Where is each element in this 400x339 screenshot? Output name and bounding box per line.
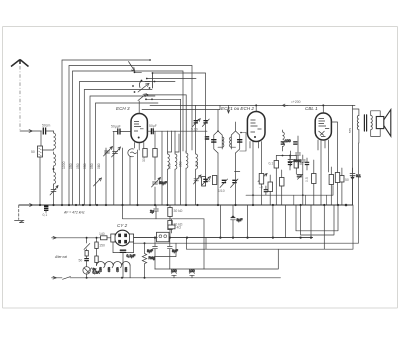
variable capacitor tuning 1: [104, 147, 113, 157]
wire main bus: [19, 204, 353, 207]
diagonal tone arrow: [297, 174, 302, 179]
capacitor trimmer IF c: [218, 179, 228, 193]
wire tube1 pins: [114, 132, 144, 206]
resistor below tube2 b: [268, 175, 273, 205]
svg-text:~0: ~0: [259, 186, 263, 190]
svg-text:0,1: 0,1: [43, 213, 48, 217]
speaker LS: [371, 110, 391, 137]
resistor mains a: [85, 251, 88, 259]
svg-text:0,1μF: 0,1μF: [127, 254, 136, 258]
coil L1 antenna: [54, 131, 56, 150]
wire plate supply line: [150, 104, 355, 106]
wire band loop 1: [62, 60, 149, 205]
svg-text:50cm: 50cm: [42, 123, 50, 127]
resistor interstage a: [269, 156, 279, 206]
svg-text:030: 030: [83, 163, 87, 169]
IF transformer T2 tank: [230, 122, 246, 205]
resistor stack below bus a: [168, 205, 183, 221]
wire B+ line: [133, 237, 313, 239]
svg-text:50μF: 50μF: [149, 124, 157, 128]
wire v205 down: [205, 131, 207, 179]
wire band loop 7: [96, 103, 159, 205]
ground: [15, 205, 25, 223]
potentiometer volume arrow: [258, 173, 267, 181]
switch HT: [84, 237, 90, 251]
wire band loop 3: [73, 71, 184, 205]
label coil values rotated: [62, 161, 199, 169]
resistor below tube2 a: [259, 174, 264, 206]
trimmer capacitor: [50, 185, 58, 205]
wire tap: [40, 132, 54, 151]
svg-text:50μμF: 50μμF: [111, 125, 121, 129]
capacitor mains filter a: [171, 269, 177, 278]
rectifier tube V4 CY2: [111, 230, 134, 246]
switch mains: [52, 277, 281, 280]
svg-text:ECH 3: ECH 3: [116, 106, 130, 111]
variable capacitor tuning 2: [112, 147, 121, 157]
wire band loop 6: [90, 96, 155, 205]
wire band loop 5: [84, 90, 152, 206]
resistor far e: [340, 168, 349, 205]
capacitor C ant 50cm: [42, 123, 54, 134]
svg-text:AF = 472 kHz: AF = 472 kHz: [63, 211, 85, 215]
svg-text:1000: 1000: [62, 161, 66, 169]
svg-text:5.10: 5.10: [191, 128, 198, 132]
wire band loop 4: [80, 82, 151, 206]
svg-text:50: 50: [31, 150, 35, 154]
capacitor coupling a: [288, 151, 301, 166]
svg-text:050: 050: [90, 163, 94, 169]
electrolytic capacitor 8uF a: [147, 238, 157, 269]
junction blob: [345, 204, 348, 207]
svg-text:2μ: 2μ: [150, 210, 154, 214]
resistor interstage c: [294, 156, 303, 175]
svg-text:575: 575: [348, 128, 352, 133]
resistor stack below bus b: [168, 221, 183, 238]
svg-text:140: 140: [99, 232, 105, 236]
capacitor coupling c: [300, 155, 305, 205]
coil osc 4: [196, 105, 198, 205]
resistor R ant: [31, 146, 43, 157]
tube V3 CBL1: [315, 104, 331, 140]
wire AVC arrow: [227, 105, 229, 113]
svg-text:080: 080: [97, 163, 101, 169]
wire switch to IF: [106, 73, 206, 205]
resistor osc pad: [202, 177, 211, 187]
output transformer T3: [357, 115, 372, 143]
svg-text:C50: C50: [107, 267, 111, 272]
svg-text:100: 100: [189, 269, 195, 273]
capacitor bias mid: [259, 186, 268, 196]
svg-text:000: 000: [167, 163, 171, 169]
wire antenna lead: [20, 130, 42, 133]
svg-text:50μF: 50μF: [159, 181, 167, 185]
svg-text:30 kΩ: 30 kΩ: [174, 209, 183, 213]
svg-text:CBL 1: CBL 1: [305, 106, 318, 111]
svg-text:CY 2: CY 2: [117, 223, 128, 228]
IF transformer T1 tank: [212, 110, 224, 205]
svg-text:≈+200: ≈+200: [291, 100, 301, 104]
capacitor 50pF right: [147, 124, 207, 134]
svg-text:5000: 5000: [294, 159, 302, 163]
capacitor grid 50pF left: [111, 125, 131, 135]
heater chain resistors: [97, 262, 131, 278]
capacitor below bus left: [43, 206, 49, 217]
resistor dropper 4ohm: [168, 219, 181, 233]
capacitor 2uF below bus: [150, 205, 158, 219]
coil L2: [53, 152, 56, 170]
wire heater rail mid: [246, 186, 333, 206]
trimmer capacitor osc 2: [194, 175, 202, 184]
svg-text:0,1: 0,1: [269, 162, 274, 166]
wire verticals to B+: [220, 205, 311, 238]
capacitor trimmer IF a: [202, 177, 211, 186]
electrolytic capacitor 8uF b: [167, 238, 178, 269]
svg-text:ECF1 ou ECH 2: ECF1 ou ECH 2: [221, 106, 254, 111]
capacitor padding C~: [128, 149, 137, 157]
svg-text:8μF: 8μF: [172, 249, 178, 253]
wire vertical v162: [161, 131, 163, 205]
trimmer capacitor osc: [152, 178, 167, 206]
resistor mains c: [95, 256, 98, 266]
resistor below tube2 c: [280, 170, 285, 205]
svg-text:300: 300: [142, 156, 146, 162]
svg-text:0.5: 0.5: [305, 177, 309, 182]
svg-text:050: 050: [76, 163, 80, 169]
svg-text:0,3A: 0,3A: [93, 271, 101, 275]
svg-text:C50: C50: [124, 267, 128, 272]
capacitor below rectifier: [120, 250, 135, 278]
lamp dial: [83, 267, 100, 278]
wire heater loop CY2: [113, 242, 134, 253]
variable capacitor padder b: [202, 119, 209, 127]
potentiometer arrow: [94, 178, 102, 186]
variable capacitor padder a: [191, 119, 200, 132]
tube V2: [247, 104, 265, 141]
wire switch to osc b: [146, 99, 181, 205]
band switch S1: [129, 59, 197, 100]
svg-text:8μF: 8μF: [147, 249, 153, 253]
wire resistor to bus: [39, 157, 41, 205]
capacitor interstage b: [288, 156, 292, 171]
capacitor right d: [350, 168, 361, 205]
svg-text:1/10: 1/10: [218, 189, 225, 193]
capacitor coupling b: [296, 136, 301, 168]
coil osc 3: [186, 151, 188, 205]
resistor box mid 1: [142, 149, 147, 163]
wire interstage rail: [276, 155, 296, 157]
coil osc 1: [168, 131, 172, 205]
wire heater line: [123, 205, 205, 269]
resistor IF b: [212, 176, 216, 185]
capacitor mains a: [79, 259, 89, 267]
svg-text:100: 100: [285, 139, 291, 143]
capacitor trimmer IF d: [231, 172, 240, 188]
capacitor grid coupling IF: [205, 131, 209, 142]
label +200: [283, 100, 301, 107]
electrolytic capacitor block 8uF: [155, 232, 169, 242]
capacitor mains filter b: [189, 269, 195, 278]
svg-text:050: 050: [69, 163, 73, 169]
capacitor interstage d: [305, 158, 309, 170]
wire band loop 2: [69, 66, 192, 206]
wire tube2 pins: [250, 142, 262, 206]
wire speaker feed: [353, 105, 359, 205]
tube V1 ECH 3: [131, 101, 147, 143]
svg-text:000: 000: [195, 161, 199, 167]
coil osc 2: [175, 131, 179, 205]
svg-text:4Ω: 4Ω: [177, 226, 182, 230]
svg-text:8μF: 8μF: [237, 218, 243, 222]
svg-text:Alter nat: Alter nat: [54, 255, 67, 259]
coil L3: [54, 169, 56, 185]
wire step lines right short: [296, 205, 338, 235]
svg-text:150: 150: [99, 244, 105, 248]
svg-text:50: 50: [79, 259, 83, 263]
antenna: [11, 60, 29, 132]
svg-text:050: 050: [178, 161, 182, 167]
wire grid line top: [142, 105, 220, 109]
resistor regulating zigzag: [142, 242, 155, 278]
svg-text:C50: C50: [115, 267, 119, 272]
coil coupling: [283, 130, 291, 151]
resistor right b: [329, 167, 333, 205]
resistor mains b: [95, 237, 105, 256]
resistor mains feed: [52, 232, 111, 240]
svg-text:50: 50: [345, 178, 349, 182]
resistor box mid 2: [153, 131, 157, 180]
svg-text:100: 100: [171, 269, 177, 273]
capacitor plate dark a: [281, 142, 285, 144]
resistor right c: [331, 122, 339, 205]
wire switch to osc a: [146, 95, 186, 152]
wire tube3 pins: [318, 140, 329, 205]
capacitor plate dark b: [293, 142, 297, 144]
resistor right a: [305, 160, 316, 205]
wire step lines lower right: [133, 143, 358, 269]
capacitor 8uF mid: [231, 205, 243, 238]
